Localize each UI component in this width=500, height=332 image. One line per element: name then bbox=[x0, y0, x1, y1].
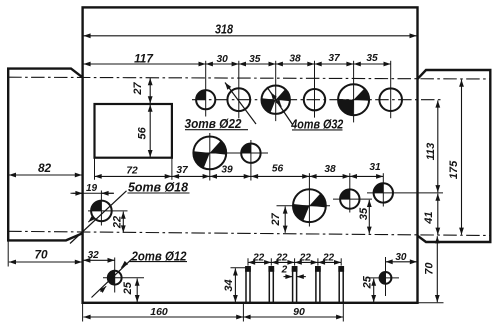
dim 32 bbox=[83, 259, 115, 261]
hole A4 vertical centerline bbox=[314, 61, 316, 118]
left flap extension line bbox=[7, 240, 9, 266]
svg-text:22: 22 bbox=[112, 216, 124, 229]
svg-text:38: 38 bbox=[324, 164, 336, 175]
dim 25 left bbox=[136, 279, 138, 303]
svg-text:35: 35 bbox=[249, 54, 261, 65]
svg-text:3отв Ø22: 3отв Ø22 bbox=[185, 116, 243, 131]
svg-text:70: 70 bbox=[34, 247, 48, 261]
svg-text:56: 56 bbox=[136, 126, 148, 139]
leader to hole A2 bbox=[225, 83, 256, 125]
dim 35 middle bbox=[368, 200, 370, 234]
dim 113 bbox=[437, 100, 439, 192]
dim chain 22x4 bbox=[248, 261, 271, 263]
dim 34 bbox=[234, 268, 236, 302]
hole A3 (32) bbox=[262, 86, 290, 114]
hole B2 (18) bbox=[241, 144, 260, 163]
slot 4 (2 wide, 34 deep) bbox=[315, 268, 317, 303]
svg-text:90: 90 bbox=[293, 306, 305, 318]
svg-text:22: 22 bbox=[275, 253, 288, 264]
dim 70 right bbox=[436, 236, 438, 302]
dim chain 72-37-39-56-38-31 bbox=[95, 175, 172, 177]
hole C3 (18) bbox=[374, 183, 393, 202]
dim 41 bbox=[437, 194, 439, 235]
bottom edge extension right bbox=[418, 302, 444, 304]
hole A6 (22) bbox=[379, 88, 402, 111]
hole A5 (32) bbox=[338, 84, 369, 115]
svg-text:32: 32 bbox=[88, 250, 100, 261]
svg-text:39: 39 bbox=[221, 165, 233, 176]
hole 5otv d18 bbox=[91, 201, 112, 222]
upper bend line bbox=[8, 77, 490, 79]
slot 2 (2 wide, 34 deep) bbox=[268, 268, 270, 303]
hole B2 vertical centerline bbox=[250, 140, 252, 181]
dim 30 bottom-right bbox=[386, 261, 418, 263]
svg-text:25: 25 bbox=[361, 275, 373, 289]
hole C2 horizontal centerline bbox=[333, 198, 372, 200]
hole C3 vertical centerline bbox=[382, 173, 384, 206]
leader to hole A3 bbox=[267, 87, 293, 125]
svg-text:27: 27 bbox=[132, 82, 144, 96]
dim 22 left bbox=[122, 212, 124, 233]
svg-text:113: 113 bbox=[425, 143, 437, 161]
svg-text:37: 37 bbox=[328, 53, 341, 64]
dim 82 bbox=[9, 174, 82, 176]
dim 70 left bbox=[9, 261, 82, 263]
svg-text:22: 22 bbox=[299, 253, 312, 264]
dim 19 bbox=[71, 192, 115, 194]
right flap outline bbox=[418, 70, 491, 242]
svg-text:37: 37 bbox=[176, 165, 189, 176]
hole A1 (22) bbox=[196, 90, 215, 109]
svg-text:30: 30 bbox=[395, 252, 407, 263]
row B horizontal centerline bbox=[194, 152, 268, 154]
dim 2 slot width bbox=[284, 276, 293, 278]
hole A4 (22?) bbox=[304, 89, 325, 110]
hole 2otv crosshair bbox=[114, 258, 116, 293]
dim 117 bbox=[83, 63, 205, 65]
hole A1 vertical centerline bbox=[205, 61, 207, 117]
dim chain 30-35-38-37-35 bbox=[206, 63, 239, 65]
dim 27 middle bbox=[284, 206, 286, 232]
hole 5otv crosshair bbox=[100, 191, 102, 226]
svg-text:35: 35 bbox=[366, 53, 378, 64]
svg-text:31: 31 bbox=[369, 162, 381, 173]
hole A2 vertical centerline bbox=[238, 61, 240, 119]
svg-text:72: 72 bbox=[126, 166, 138, 177]
row A horizontal centerline bbox=[192, 99, 443, 101]
hole C2 (18) bbox=[340, 189, 359, 208]
bottom-right hole crosshair bbox=[385, 257, 387, 296]
hole A2 (22) bbox=[227, 88, 250, 111]
svg-text:22: 22 bbox=[252, 253, 265, 264]
svg-text:19: 19 bbox=[86, 183, 98, 194]
svg-text:25: 25 bbox=[122, 281, 134, 295]
slot 3 (2 wide, 34 deep) bbox=[292, 268, 294, 303]
hole A3 vertical centerline bbox=[275, 61, 277, 121]
leader to hole 2otv bbox=[92, 259, 133, 298]
svg-text:70: 70 bbox=[424, 262, 436, 275]
svg-text:160: 160 bbox=[150, 306, 168, 318]
svg-text:318: 318 bbox=[215, 23, 233, 37]
dim 27 upper bbox=[149, 78, 151, 104]
svg-text:22: 22 bbox=[322, 253, 335, 264]
hole C1 horizontal centerline bbox=[277, 205, 331, 207]
hole C2 vertical centerline bbox=[349, 173, 351, 212]
hole B1 vertical centerline bbox=[209, 133, 211, 181]
slot 5 (2 wide, 34 deep) bbox=[338, 268, 340, 303]
slot 1 (2 wide, 34 deep) bbox=[245, 268, 247, 303]
dim 318 bbox=[83, 35, 416, 37]
hole C1 vertical centerline bbox=[308, 173, 310, 226]
dim 25 right bbox=[373, 279, 375, 303]
svg-text:56: 56 bbox=[272, 164, 284, 175]
dim 160/90 extension lines bbox=[82, 303, 84, 322]
svg-text:41: 41 bbox=[423, 211, 435, 224]
hole 2otv d12 bbox=[108, 271, 122, 285]
hole A5 vertical centerline bbox=[353, 61, 355, 123]
rectangular cutout 72x56 bbox=[95, 104, 172, 158]
svg-text:175: 175 bbox=[448, 160, 460, 179]
dim 160 bbox=[83, 316, 243, 318]
leader to hole 5otv bbox=[70, 191, 127, 244]
lower bend line bbox=[8, 231, 490, 235]
svg-text:117: 117 bbox=[134, 51, 154, 65]
svg-text:30: 30 bbox=[217, 54, 229, 65]
cutout extension lines bbox=[94, 159, 96, 180]
dim 175 bbox=[461, 80, 463, 235]
svg-text:82: 82 bbox=[38, 161, 52, 175]
hole B1 (32) bbox=[193, 137, 226, 170]
hole A6 vertical centerline bbox=[390, 61, 392, 118]
dim 90 bbox=[243, 316, 343, 318]
svg-text:35: 35 bbox=[358, 207, 370, 220]
hole C1 (32) bbox=[293, 189, 326, 222]
svg-text:27: 27 bbox=[270, 212, 282, 226]
hole C3 horizontal centerline bbox=[367, 192, 443, 194]
svg-text:2: 2 bbox=[281, 264, 288, 275]
svg-text:38: 38 bbox=[289, 54, 301, 65]
dim 56 bbox=[149, 105, 151, 158]
svg-text:34: 34 bbox=[223, 279, 235, 291]
bottom-right hole d12 bbox=[380, 272, 392, 284]
left flap outline bbox=[8, 69, 82, 241]
main plate outline bbox=[83, 7, 418, 302]
